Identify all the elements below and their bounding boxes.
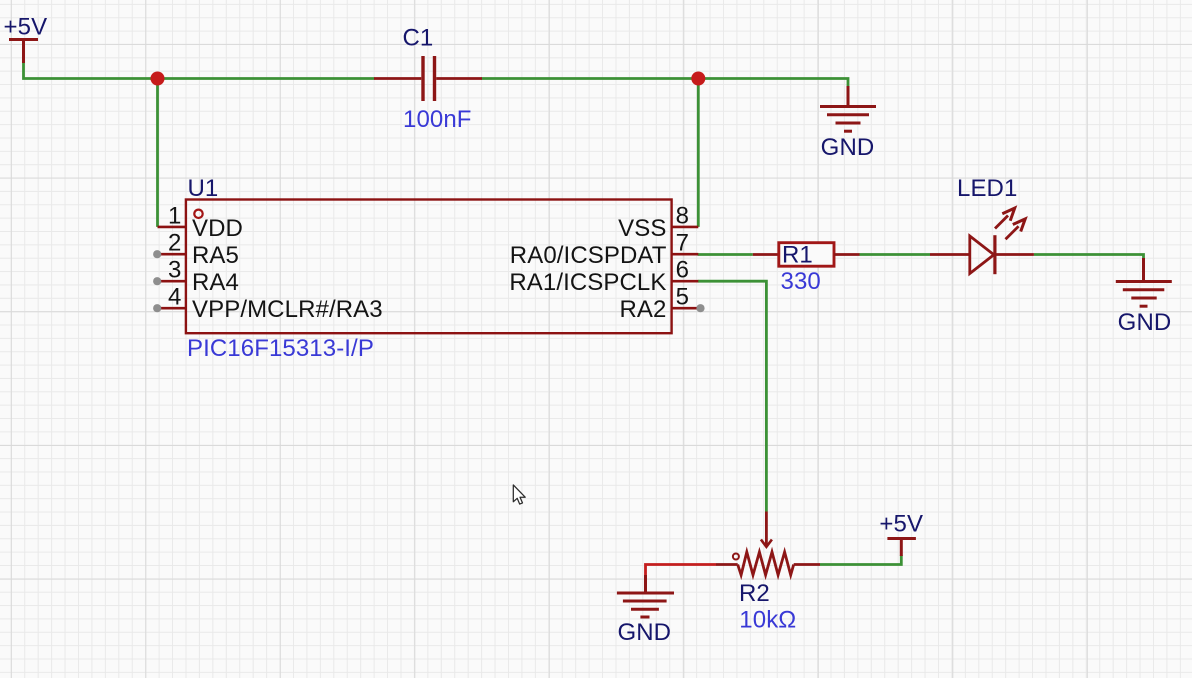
svg-text:3: 3	[168, 257, 181, 284]
svg-text:R2: R2	[739, 580, 770, 607]
pin 4 VPP/MCLR#/RA3	[158, 307, 186, 310]
IC U1 body	[186, 200, 672, 334]
svg-text:8: 8	[676, 202, 689, 229]
svg-text:RA4: RA4	[192, 269, 239, 296]
mouse cursor	[513, 485, 525, 504]
pin 3 open-end dot	[153, 277, 161, 285]
LED1 emission arrow 1	[995, 216, 1008, 229]
wire R2 right to +5V corner	[820, 555, 901, 565]
junction A	[151, 72, 165, 86]
wire C1 right to GND corner	[482, 79, 849, 89]
pin 4 open-end dot	[153, 304, 161, 312]
wire LED1 cathode to GND right	[1034, 255, 1144, 261]
R2 pin-1 indicator circle	[733, 554, 739, 560]
svg-text:7: 7	[676, 230, 689, 257]
LED1 emission arrow 2	[1006, 226, 1019, 239]
svg-text:6: 6	[676, 257, 689, 284]
svg-text:+5V: +5V	[879, 511, 923, 538]
pin 7 RA0/ICSPDAT	[672, 253, 699, 256]
wire U1 pin6 to R2 wiper	[698, 281, 767, 511]
wire U1 pin7 to R1	[698, 253, 753, 256]
wire +5V to C1 left	[24, 62, 375, 79]
junction B	[691, 72, 705, 86]
svg-text:330: 330	[781, 268, 821, 295]
pin-1 indicator circle	[194, 210, 202, 218]
LED LED1	[930, 208, 1034, 274]
pin 2 open-end dot	[153, 250, 161, 258]
wire GND to R2 pin1 (red net)	[646, 565, 717, 577]
svg-text:VDD: VDD	[192, 215, 243, 242]
svg-text:10kΩ: 10kΩ	[739, 606, 796, 633]
R2 wiper arrow	[765, 512, 768, 546]
ground GND top	[820, 86, 876, 131]
svg-text:VPP/MCLR#/RA3: VPP/MCLR#/RA3	[192, 296, 383, 323]
svg-text:100nF: 100nF	[403, 106, 472, 133]
pin 8 VSS	[672, 226, 699, 229]
svg-text:RA5: RA5	[192, 242, 239, 269]
svg-text:PIC16F15313-I/P: PIC16F15313-I/P	[187, 335, 374, 362]
svg-text:C1: C1	[403, 25, 434, 52]
svg-text:LED1: LED1	[957, 175, 1017, 202]
potentiometer R2	[716, 512, 820, 576]
svg-text:VSS: VSS	[618, 215, 666, 242]
svg-text:GND: GND	[821, 134, 875, 161]
svg-text:5: 5	[676, 284, 689, 311]
svg-text:4: 4	[168, 284, 181, 311]
capacitor C1	[374, 56, 482, 101]
ground GND bottom	[617, 575, 674, 617]
svg-text:RA0/ICSPDAT: RA0/ICSPDAT	[510, 242, 667, 269]
resistor R1	[753, 243, 860, 267]
pin 3 RA4	[158, 280, 186, 283]
pin 2 RA5	[158, 253, 186, 256]
pin 6 RA1/ICSPCLK	[672, 280, 699, 283]
svg-text:RA2: RA2	[620, 296, 667, 323]
wire R1 to LED1 anode	[860, 253, 931, 256]
svg-text:U1: U1	[188, 175, 219, 202]
svg-text:GND: GND	[617, 619, 671, 646]
svg-text:R1: R1	[782, 242, 813, 269]
wire junction A down to U1 pin1	[156, 79, 159, 227]
svg-text:+5V: +5V	[4, 14, 48, 41]
svg-text:RA1/ICSPCLK: RA1/ICSPCLK	[509, 269, 666, 296]
pin 1 VDD	[158, 226, 186, 229]
svg-text:1: 1	[168, 202, 181, 229]
svg-text:GND: GND	[1118, 309, 1172, 336]
svg-text:2: 2	[168, 230, 181, 257]
ground GND right	[1116, 258, 1172, 306]
power flag +5V top-left	[9, 40, 38, 64]
pin 5 open-end dot	[696, 304, 704, 312]
pin 5 RA2	[672, 307, 699, 310]
power flag +5V bottom	[887, 539, 916, 557]
wire junction B down to U1 pin8	[697, 79, 700, 227]
